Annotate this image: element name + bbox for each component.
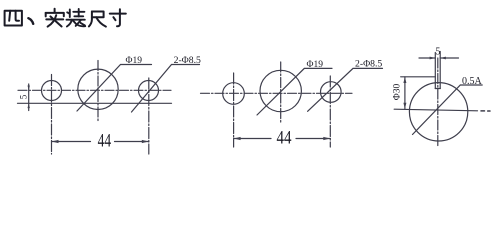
keyway slot bottom cap view3	[435, 88, 440, 90]
svg-text:0.5A: 0.5A	[462, 76, 483, 87]
leader line phi19 view2	[257, 68, 332, 115]
centerline vertical right hole view1	[148, 78, 150, 154]
svg-text:44: 44	[98, 131, 112, 152]
phi30 dimension line view3	[404, 77, 406, 109]
centerline horizontal view2	[201, 92, 353, 94]
centerline vertical left hole view1	[51, 75, 53, 155]
centerline horizontal view3	[394, 109, 477, 111]
centerline vertical view3	[437, 58, 439, 146]
dimension 44 line view2	[234, 138, 331, 140]
svg-text:5: 5	[435, 47, 440, 58]
centerline vertical knob view1	[97, 61, 99, 122]
centerline vertical knob view2	[280, 62, 282, 122]
svg-text:5: 5	[19, 94, 29, 99]
leader line 2-phi8.5 view1	[132, 65, 200, 113]
leader diagonal 0.5A view3	[413, 85, 483, 135]
title 安	[46, 9, 64, 27]
svg-text:2-Φ8.5: 2-Φ8.5	[355, 59, 382, 70]
dimension 5 arrows view3	[419, 57, 459, 59]
hole circle left 8.5 view1	[42, 81, 62, 101]
svg-text:Φ19: Φ19	[307, 60, 324, 70]
hole circle left 8.5 view2	[223, 83, 245, 105]
centerline horizontal view1	[18, 89, 171, 91]
dimension 5 arrow down view1	[28, 86, 30, 91]
title 寸	[110, 9, 126, 26]
knob circle 19 view1	[78, 69, 118, 109]
leader line phi19 view1	[77, 65, 152, 112]
dimension 44 arrow left view2	[234, 137, 241, 140]
svg-text:Φ19: Φ19	[126, 56, 143, 66]
svg-text:44: 44	[277, 128, 292, 148]
svg-text:2-Φ8.5: 2-Φ8.5	[174, 55, 201, 66]
dimension 44 arrow right view1	[142, 140, 149, 143]
leader line 2-phi8.5 view2	[308, 68, 383, 111]
dimension 5 arrow right-point view3	[430, 57, 436, 60]
centerline dash continuation view3	[481, 110, 490, 112]
keyway slot left line view3	[434, 53, 436, 89]
phi30 arrow down view3	[403, 103, 406, 109]
phi30 extension line top view3	[401, 76, 436, 78]
title 装	[67, 9, 86, 27]
knob circle 19 view2	[260, 70, 301, 111]
dimension 5 arrow up view1	[28, 103, 30, 108]
centerline vertical right hole view2	[329, 76, 331, 147]
keyway slot right line view3	[439, 52, 441, 89]
dimension 44 arrow left view1	[52, 140, 59, 143]
centerline vertical left hole view2	[233, 73, 235, 147]
svg-text:Φ30: Φ30	[392, 84, 402, 101]
hole circle right 8.5 view2	[321, 82, 342, 103]
panel edge line view1	[18, 102, 172, 104]
title 、	[28, 18, 33, 24]
dimension 44 arrow right view2	[323, 137, 330, 140]
title 四	[5, 11, 22, 26]
phi30 arrow up view3	[403, 77, 406, 83]
title 尺	[89, 12, 106, 27]
dimension 5 line view1	[28, 84, 30, 111]
shaft circle 30 view3	[409, 83, 467, 141]
dimension 44 line view1	[52, 141, 149, 143]
dimension 5 arrow left-point view3	[440, 57, 446, 60]
hole circle right 8.5 view1	[139, 81, 159, 101]
